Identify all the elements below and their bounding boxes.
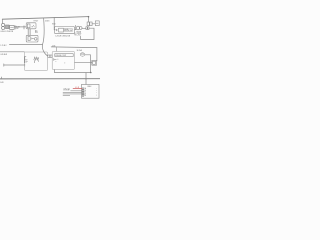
svg-text:2: 2 xyxy=(96,90,97,92)
svg-text:OP: OP xyxy=(25,61,27,63)
svg-text:ECU: ECU xyxy=(52,24,56,26)
svg-text:ST: ST xyxy=(25,60,27,62)
svg-text:0.5 G-W: 0.5 G-W xyxy=(63,90,69,92)
svg-text:0.85: 0.85 xyxy=(52,45,55,47)
svg-text:1A: 1A xyxy=(84,87,86,90)
svg-text:2B: 2B xyxy=(16,28,18,30)
svg-text:5: 5 xyxy=(96,95,97,97)
svg-text:2E: 2E xyxy=(84,90,86,92)
svg-text:4F: 4F xyxy=(84,93,86,95)
svg-text:0.85 B-W: 0.85 B-W xyxy=(0,54,7,56)
svg-text:CRUISE CONT: CRUISE CONT xyxy=(55,55,66,57)
svg-text:1.25G-R 0.85G-B 2B: 1.25G-R 0.85G-B 2B xyxy=(55,36,70,38)
svg-text:30 15A: 30 15A xyxy=(77,49,83,52)
svg-text:3C: 3C xyxy=(84,92,86,94)
svg-text:HI 1.25G: HI 1.25G xyxy=(74,35,81,37)
svg-text:HORN: HORN xyxy=(76,31,82,33)
svg-text:B-W: B-W xyxy=(0,82,4,84)
svg-text:H.RLY: H.RLY xyxy=(34,21,40,23)
svg-text:0.85G: 0.85G xyxy=(45,20,50,22)
svg-text:1: 1 xyxy=(96,88,97,90)
svg-text:F10: F10 xyxy=(81,54,84,56)
svg-text:5B: 5B xyxy=(84,95,86,97)
svg-text:1.25 B-Y: 1.25 B-Y xyxy=(0,45,7,47)
svg-text:4: 4 xyxy=(96,93,97,95)
svg-text:J/BLK: J/BLK xyxy=(87,86,91,88)
svg-text:0.85G 1.25GR 2B: 0.85G 1.25GR 2B xyxy=(0,31,13,33)
svg-text:3: 3 xyxy=(96,92,97,94)
svg-text:HORN SW: HORN SW xyxy=(64,30,72,32)
